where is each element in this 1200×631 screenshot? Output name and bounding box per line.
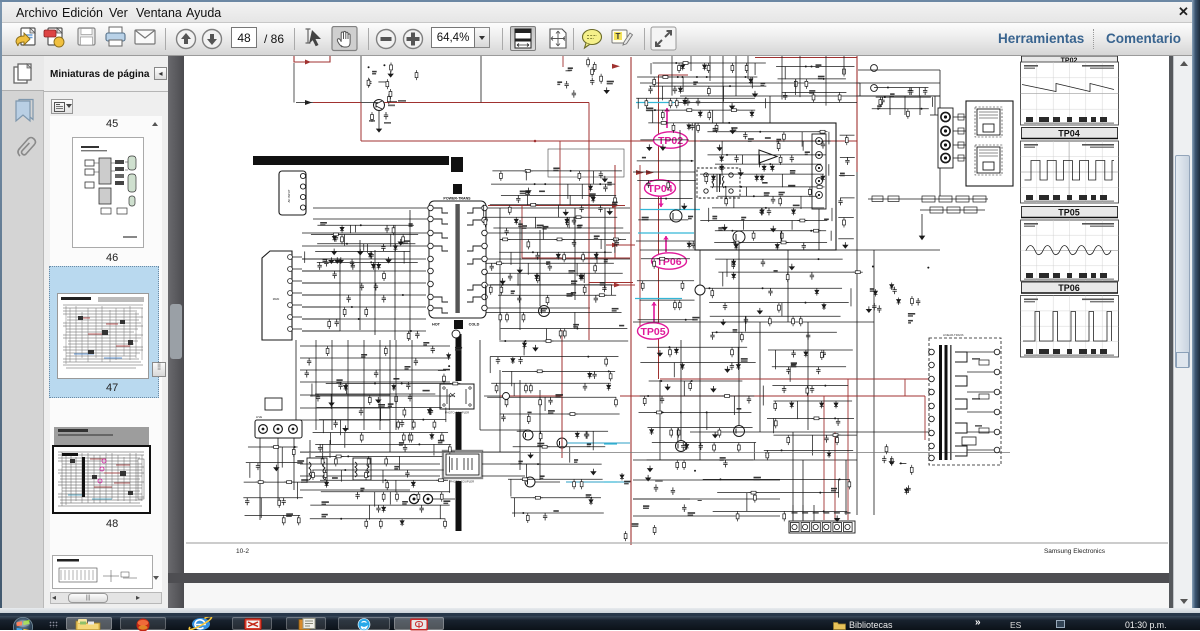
resistor R56: [597, 294, 607, 297]
photo-coupler PC1: [440, 384, 474, 409]
svg-text:POWER-TRANS: POWER-TRANS: [443, 197, 471, 201]
T3 right pin 1: [994, 349, 1000, 355]
waveform trace TP02: [1021, 93, 1118, 95]
wire W16: [409, 210, 411, 340]
wire W249: [831, 208, 833, 221]
wire W111: [482, 216, 617, 218]
resistor R191: [848, 479, 851, 489]
ground G37: [725, 366, 730, 372]
resistor R105: [653, 77, 656, 87]
wire W119: [614, 239, 616, 252]
wire W337: [709, 56, 711, 81]
diode D16: [591, 195, 595, 202]
resistor R93: [415, 70, 418, 80]
diode D45: [755, 174, 759, 181]
ref designator Z100: [688, 512, 696, 514]
resistor R62: [559, 328, 562, 338]
output pin 4: [941, 153, 950, 162]
output pin 2: [941, 126, 950, 135]
test point label TP06: [652, 236, 687, 269]
wire W20: [488, 284, 610, 286]
transformer T1 right pin 8: [482, 294, 488, 300]
node N26: [537, 463, 539, 465]
resistor R175: [811, 417, 821, 420]
ref designator Z37: [604, 259, 608, 261]
ground G10: [343, 425, 348, 431]
wire W288: [706, 412, 708, 430]
wire W38: [389, 340, 391, 452]
wire drive vert upper: [360, 56, 362, 103]
wire W329: [300, 357, 450, 359]
red wire to terminal: [847, 379, 849, 520]
resistor R153: [768, 316, 771, 326]
wire startup drop: [293, 63, 295, 99]
svg-text:LIVE: LIVE: [256, 415, 262, 419]
resistor R198: [885, 444, 888, 454]
svg-text:Samsung Electronics: Samsung Electronics: [1044, 548, 1106, 555]
IC pin 5: [816, 192, 823, 199]
value label Z3: [398, 100, 406, 102]
connector J2 MAIN-SMPS: [262, 251, 292, 340]
wire W5: [302, 258, 340, 260]
resistor R14: [402, 433, 405, 443]
ref designator Z30: [542, 226, 548, 228]
resistor R171: [653, 525, 656, 535]
node N87: [927, 267, 929, 269]
wire W113: [535, 217, 537, 228]
svg-text:TP06: TP06: [1058, 283, 1080, 293]
diode D33: [749, 77, 753, 84]
diode D21: [535, 273, 539, 280]
resistor R53: [489, 285, 492, 295]
diode D9: [427, 407, 431, 414]
wire W358: [717, 492, 838, 494]
transformer T1 right pin 4: [482, 243, 488, 249]
node N9: [344, 469, 346, 471]
diode D66: [765, 450, 769, 457]
capacitor C68: [761, 259, 765, 267]
wire W11: [302, 330, 340, 332]
wire W208: [650, 63, 652, 74]
capacitor C78: [681, 443, 685, 451]
diode D60: [685, 443, 689, 450]
wire W251: [700, 220, 827, 222]
capacitor C18: [376, 505, 380, 513]
capacitor C17: [419, 505, 423, 513]
ref designator Z63: [607, 81, 614, 83]
diode D18: [514, 217, 518, 224]
ref designator Z85: [741, 217, 746, 219]
resistor R196: [911, 296, 914, 306]
wire W350: [858, 82, 940, 84]
wire W123: [485, 262, 614, 264]
wire W17: [488, 207, 630, 209]
wire W263: [636, 240, 694, 242]
wire W334: [300, 419, 390, 421]
wire W120: [499, 251, 612, 253]
resistor R24: [365, 470, 368, 480]
node N16: [577, 216, 579, 218]
electrolytic cap C100: [871, 65, 878, 72]
doc v-scrollbar: [1169, 56, 1173, 608]
wire W207: [754, 63, 756, 75]
wire W102: [491, 183, 615, 185]
resistor R154: [740, 332, 743, 342]
wire W227: [707, 131, 823, 133]
wire W306: [762, 386, 764, 406]
node N43: [811, 66, 813, 68]
resistor R19: [367, 456, 370, 466]
connector J1 pin 1: [300, 173, 305, 178]
node N60: [762, 287, 764, 289]
resistor R195: [783, 511, 786, 521]
connector J1 pin 4: [300, 205, 305, 210]
resistor R104: [678, 63, 681, 73]
wire W125: [576, 263, 578, 276]
terminal 3: [812, 523, 821, 532]
capacitor C77: [747, 396, 751, 404]
node N51: [753, 195, 755, 197]
red wire fb vert 2: [614, 165, 616, 258]
diode D35: [683, 98, 687, 105]
wire W268: [715, 258, 842, 260]
resistor R77: [256, 481, 266, 484]
fuse F1: [265, 398, 282, 410]
resistor R110: [645, 98, 648, 108]
ground G18: [274, 465, 279, 471]
capacitor C26: [615, 239, 619, 247]
red arrow fb1: [612, 203, 619, 208]
node N74: [877, 108, 879, 110]
capacitor C62: [771, 196, 775, 204]
svg-text:COLD: COLD: [469, 323, 480, 327]
wire W313: [764, 449, 853, 451]
resistor R132: [725, 196, 728, 206]
wire W200: [807, 322, 809, 430]
node N45: [759, 131, 761, 133]
node N79: [402, 294, 404, 296]
resistor R28: [382, 492, 385, 502]
resistor R9: [397, 420, 400, 430]
wire W330: [300, 369, 450, 371]
line filter LF2: [353, 458, 371, 480]
isolation barrier bar lower: [456, 481, 462, 531]
resistor R51: [594, 263, 597, 273]
resistor R59: [522, 312, 525, 322]
ref designator Z68: [693, 81, 698, 83]
wire W176: [640, 249, 940, 251]
wire W345: [839, 174, 855, 176]
wire W241: [781, 174, 783, 187]
ref designator Z82: [764, 192, 770, 194]
diode arrow on U-loop: [305, 60, 311, 65]
resistor R172: [820, 350, 823, 360]
wire W282: [673, 363, 675, 378]
ground G23: [753, 91, 758, 97]
resistor R114: [661, 110, 664, 120]
resistor R97: [593, 62, 596, 72]
node N12: [570, 170, 572, 172]
wire W12: [339, 259, 341, 331]
page bottom shadow bar: [168, 573, 1172, 583]
resistor R155: [731, 347, 734, 357]
capacitor C111: [359, 408, 363, 416]
red wire fb vert 1: [588, 103, 590, 341]
red wire to terminal 3: [834, 432, 836, 520]
wire J2 pin 7 stub: [293, 328, 303, 330]
wire W6: [302, 270, 340, 272]
capacitor C10: [428, 407, 432, 415]
ground G26: [717, 145, 722, 151]
resistor R149: [711, 288, 714, 298]
wire W192: [659, 380, 661, 460]
wire W78: [344, 433, 346, 448]
red wire secondary rail 1: [660, 378, 930, 380]
resistor R45: [611, 238, 621, 241]
ref designator Z19: [322, 501, 329, 503]
wire W286: [733, 396, 735, 415]
svg-text:PHOTO-COUPLER: PHOTO-COUPLER: [445, 411, 469, 415]
resistor R200: [962, 437, 976, 445]
diode D68: [873, 289, 877, 296]
diode D26: [588, 371, 592, 378]
resistor R54: [583, 285, 586, 295]
transformer T1 right pin 6: [482, 269, 488, 275]
window bottom strip: [0, 608, 1200, 615]
wire W301: [768, 349, 853, 351]
wire W333: [300, 407, 390, 409]
wire W328: [300, 345, 450, 347]
wire W50: [361, 102, 378, 104]
ref designator Z101: [632, 523, 639, 525]
resistor R119: [843, 67, 846, 77]
capacitor C116: [892, 287, 896, 295]
T1 secondary winding segment: [467, 285, 481, 290]
capacitor C67: [691, 241, 695, 249]
wire W76: [322, 420, 324, 433]
ref designator Z111: [754, 477, 761, 479]
resistor R159: [643, 396, 646, 406]
node N69: [706, 411, 708, 413]
wire W273: [850, 288, 852, 306]
wire W235: [759, 155, 761, 167]
node N82: [410, 330, 412, 332]
wire W155: [260, 498, 262, 518]
ref designator Z110: [840, 173, 845, 175]
line filter LF1: [307, 458, 327, 482]
wire W193: [699, 250, 701, 285]
resistor R184: [328, 319, 331, 329]
wire J2 pin 6 stub: [293, 316, 303, 318]
T1 primary winding segment: [434, 308, 448, 313]
wire W237: [721, 164, 723, 176]
resistor R85: [580, 479, 583, 489]
wire W310: [773, 418, 775, 433]
ref designator Z12: [378, 404, 385, 406]
resistor R21: [321, 456, 324, 466]
wire W71: [317, 406, 442, 408]
wire W97: [439, 505, 441, 519]
capacitor C_q1a: [384, 112, 388, 120]
resistor R197: [890, 456, 893, 466]
diode D57: [736, 363, 740, 370]
resistor R12: [408, 433, 411, 443]
ref designator Z79: [790, 170, 796, 172]
ground G30: [661, 144, 666, 150]
wire W344: [840, 156, 855, 158]
wire W363: [899, 463, 906, 465]
diode D54: [815, 288, 819, 295]
waveform scope TP04: [1021, 141, 1119, 203]
ground G46: [889, 459, 894, 465]
wire W104: [581, 184, 583, 199]
red wire W204: [924, 396, 926, 440]
node N41: [728, 122, 730, 124]
transformer T1 core: [455, 204, 459, 313]
diode D12: [325, 480, 329, 487]
resistor R3: [341, 234, 344, 244]
capacitor C63: [767, 208, 771, 216]
wire W327: [411, 340, 413, 430]
ref designator Z93: [774, 270, 778, 272]
resistor R173: [806, 386, 809, 396]
resistor R89: [367, 78, 370, 88]
wire W89: [320, 479, 448, 481]
node N76: [824, 385, 826, 387]
wire W172: [640, 82, 860, 84]
resistor R176: [774, 418, 777, 428]
wire W152: [244, 481, 303, 483]
wire W164: [510, 479, 512, 496]
maroon vertical 3: [658, 75, 660, 379]
wire W304: [789, 367, 791, 382]
snubber box outline: [548, 149, 624, 177]
resistor R142: [641, 281, 644, 291]
resistor R57: [546, 295, 549, 305]
red wire stub y285: [610, 284, 635, 286]
wire W258: [640, 139, 688, 141]
red wire B+ feed b: [385, 102, 590, 104]
wire W80: [315, 443, 451, 445]
red wire B+ feed a: [313, 102, 361, 104]
wire W341: [825, 56, 827, 106]
wire W267: [638, 319, 694, 321]
ref designator Z22: [322, 514, 328, 516]
wire W13: [359, 240, 361, 330]
capacitor C98: [332, 271, 336, 279]
node N65: [660, 380, 662, 382]
wire W51: [293, 99, 295, 103]
wire W3: [302, 232, 427, 234]
node N28: [522, 512, 524, 514]
wire W67: [311, 384, 313, 397]
wire W250: [708, 208, 710, 222]
red wire opto drive: [561, 330, 563, 458]
wire W320: [302, 330, 426, 332]
wire W159: [513, 446, 606, 448]
ref designator Z33: [578, 225, 583, 227]
resistor R151: [799, 316, 802, 326]
ref designator Z6: [320, 222, 327, 224]
capacitor C16: [355, 492, 359, 500]
diode D67: [827, 450, 831, 457]
capacitor C69: [810, 272, 814, 280]
node N63: [716, 331, 718, 333]
AC inlet terminal 1: [259, 425, 268, 434]
node N35: [696, 76, 698, 78]
wire W118: [600, 239, 602, 249]
wire W81: [322, 444, 324, 457]
resistor R129: [815, 186, 825, 189]
ref designator Z35: [577, 225, 582, 227]
resistor R78: [284, 481, 294, 484]
wire W58: [317, 243, 415, 245]
wire W314: [302, 258, 426, 260]
wire W322: [331, 340, 333, 430]
resistor R98: [591, 67, 594, 77]
ref designator Z24: [607, 182, 612, 184]
capacitor C103: [335, 319, 339, 327]
ref designator Z45: [540, 308, 547, 310]
wire W255: [780, 231, 782, 244]
resistor R81: [297, 515, 300, 525]
T3 secondary winding: [955, 352, 967, 456]
wire W287: [639, 411, 752, 413]
node N83: [719, 478, 721, 480]
transformer T1 left pin 2: [428, 216, 434, 222]
diode D32: [681, 63, 685, 70]
wire right boundary top: [755, 57, 857, 59]
wire W18: [488, 232, 630, 234]
wire W133: [486, 311, 622, 313]
T3 left pin 9: [929, 455, 935, 461]
diode D17: [565, 217, 569, 224]
bus bar (thick black): [253, 156, 449, 165]
diode D11: [411, 480, 415, 487]
ref designator Z72: [809, 90, 815, 92]
wire W194: [738, 243, 740, 425]
capacitor C37: [592, 371, 596, 379]
ref designator Z107: [361, 354, 367, 356]
ground G9: [329, 400, 334, 406]
wire W289: [648, 427, 753, 429]
capacitor C85: [671, 487, 675, 495]
resistor R127: [779, 155, 782, 165]
node N86: [823, 510, 825, 512]
ref designator Z28: [539, 191, 545, 193]
ref designator Z61: [553, 510, 558, 512]
wire W68: [315, 393, 435, 395]
red wire to terminal 2: [823, 396, 825, 520]
wire W228: [801, 132, 803, 147]
resistor R22: [334, 456, 337, 466]
cyan stub out1: [604, 443, 617, 445]
fuse holder circles: [409, 494, 418, 503]
wire W22: [499, 208, 501, 340]
ref designator Z47: [619, 325, 624, 327]
ref designator Z9: [323, 259, 328, 261]
wire W83: [315, 455, 442, 457]
capacitor C56: [690, 123, 694, 131]
ref designator Z15: [438, 440, 445, 442]
ref designator Z52: [297, 460, 304, 462]
wire W64: [317, 261, 418, 263]
resistor R36: [523, 169, 533, 172]
ground G15: [517, 267, 522, 273]
wire W43: [480, 429, 528, 431]
node N34: [677, 76, 679, 78]
T3 right pin 6: [994, 447, 1000, 453]
